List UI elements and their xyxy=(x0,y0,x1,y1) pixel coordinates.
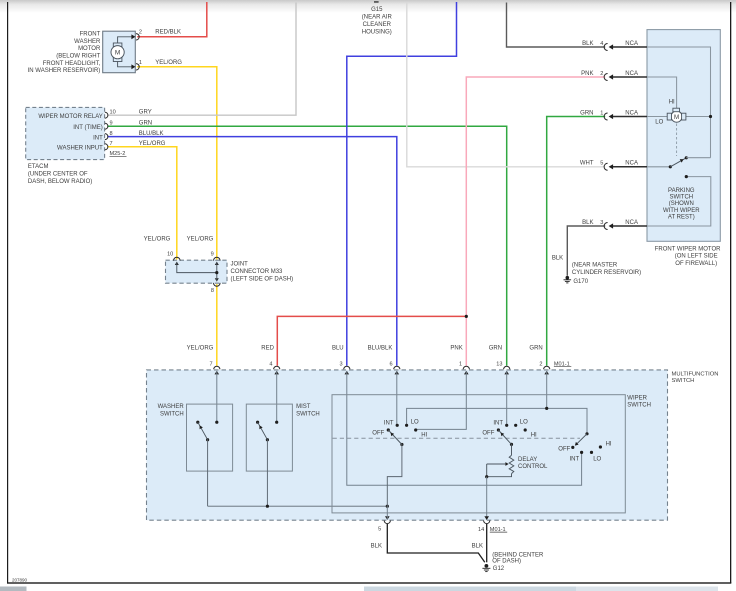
svg-text:CLEANER: CLEANER xyxy=(363,22,392,28)
svg-text:PARKING: PARKING xyxy=(668,188,695,194)
svg-text:GRY: GRY xyxy=(139,110,152,116)
svg-text:NCA: NCA xyxy=(625,220,638,226)
svg-text:INT (TIME): INT (TIME) xyxy=(73,125,103,131)
svg-text:CONNECTOR M33: CONNECTOR M33 xyxy=(231,269,284,275)
svg-text:13: 13 xyxy=(496,361,502,367)
svg-text:2: 2 xyxy=(139,30,142,36)
svg-text:1: 1 xyxy=(139,60,142,66)
svg-text:INT: INT xyxy=(570,457,580,463)
svg-text:NCA: NCA xyxy=(625,161,638,167)
svg-text:(BELOW RIGHT: (BELOW RIGHT xyxy=(56,53,100,59)
svg-text:RED/BLK: RED/BLK xyxy=(155,30,181,36)
svg-text:MIST: MIST xyxy=(296,404,311,410)
svg-text:5: 5 xyxy=(600,161,603,167)
svg-text:LO: LO xyxy=(520,420,528,426)
svg-text:OFF: OFF xyxy=(558,447,570,453)
svg-text:SWITCH: SWITCH xyxy=(160,411,184,417)
svg-text:MOTOR: MOTOR xyxy=(78,46,101,52)
svg-text:YEL/ORG: YEL/ORG xyxy=(139,141,166,147)
svg-text:BLK: BLK xyxy=(472,544,483,550)
svg-text:JOINT: JOINT xyxy=(231,261,249,267)
svg-text:BLU/BLK: BLU/BLK xyxy=(368,346,393,352)
svg-text:3: 3 xyxy=(600,220,603,226)
svg-text:1: 1 xyxy=(459,361,462,367)
svg-text:14: 14 xyxy=(478,527,484,533)
svg-text:OFF: OFF xyxy=(482,431,494,437)
svg-text:INT: INT xyxy=(384,420,394,426)
svg-text:HI: HI xyxy=(421,432,427,438)
svg-text:YEL/ORG: YEL/ORG xyxy=(155,60,182,66)
svg-text:BLK: BLK xyxy=(552,256,563,262)
svg-text:G170: G170 xyxy=(573,279,588,285)
svg-text:3: 3 xyxy=(339,361,342,367)
svg-text:OFF: OFF xyxy=(372,431,384,437)
svg-text:M: M xyxy=(115,50,120,57)
svg-text:2: 2 xyxy=(539,361,542,367)
svg-text:5: 5 xyxy=(378,526,381,532)
svg-text:(SHOWN: (SHOWN xyxy=(669,201,694,207)
svg-text:DELAY: DELAY xyxy=(518,457,537,463)
svg-text:DASH, BELOW RADIO): DASH, BELOW RADIO) xyxy=(28,179,92,185)
svg-text:HI: HI xyxy=(606,441,612,447)
svg-text:WASHER INPUT: WASHER INPUT xyxy=(57,146,103,152)
svg-text:M: M xyxy=(674,114,679,121)
svg-text:(NEAR MASTER: (NEAR MASTER xyxy=(572,263,618,269)
svg-text:BLK: BLK xyxy=(582,220,593,226)
svg-text:LO: LO xyxy=(655,120,663,126)
svg-text:FRONT HEADLIGHT,: FRONT HEADLIGHT, xyxy=(43,61,101,67)
svg-text:INT: INT xyxy=(493,420,503,426)
svg-text:RED: RED xyxy=(261,346,274,352)
svg-text:7: 7 xyxy=(209,361,212,367)
svg-text:PNK: PNK xyxy=(581,71,593,77)
svg-text:4: 4 xyxy=(600,41,603,47)
svg-text:HOUSING): HOUSING) xyxy=(362,29,392,35)
svg-text:10: 10 xyxy=(110,110,116,116)
svg-text:YEL/ORG: YEL/ORG xyxy=(187,346,214,352)
svg-text:(ON LEFT SIDE: (ON LEFT SIDE xyxy=(675,254,718,260)
svg-text:2: 2 xyxy=(600,71,603,77)
svg-text:G15: G15 xyxy=(371,7,383,13)
svg-text:AT REST): AT REST) xyxy=(668,215,695,221)
svg-text:8: 8 xyxy=(211,288,214,294)
svg-text:SWITCH: SWITCH xyxy=(672,378,695,384)
svg-text:G12: G12 xyxy=(493,566,505,572)
svg-text:NCA: NCA xyxy=(625,41,638,47)
svg-text:(UNDER CENTER OF: (UNDER CENTER OF xyxy=(28,171,88,177)
svg-text:WITH WIPER: WITH WIPER xyxy=(663,208,700,214)
svg-text:LO: LO xyxy=(411,420,419,426)
svg-text:9: 9 xyxy=(211,252,214,258)
svg-text:WASHER: WASHER xyxy=(158,404,185,410)
svg-text:6: 6 xyxy=(389,361,392,367)
svg-text:CONTROL: CONTROL xyxy=(518,464,548,470)
svg-text:BLU: BLU xyxy=(332,346,344,352)
svg-text:7: 7 xyxy=(110,141,113,147)
svg-text:(LEFT SIDE OF DASH): (LEFT SIDE OF DASH) xyxy=(231,276,294,282)
svg-text:9: 9 xyxy=(110,121,113,127)
svg-text:NCA: NCA xyxy=(625,71,638,77)
svg-text:GRN: GRN xyxy=(489,346,502,352)
svg-text:WASHER: WASHER xyxy=(74,39,101,45)
svg-text:YEL/ORG: YEL/ORG xyxy=(187,237,214,243)
svg-text:(NEAR AIR: (NEAR AIR xyxy=(362,15,393,21)
svg-text:8: 8 xyxy=(110,131,113,137)
svg-text:SWITCH: SWITCH xyxy=(296,411,320,417)
svg-text:HI: HI xyxy=(531,432,537,438)
svg-text:SWITCH: SWITCH xyxy=(669,195,693,201)
svg-text:INT: INT xyxy=(93,135,103,141)
svg-text:BLU/BLK: BLU/BLK xyxy=(139,131,164,137)
svg-text:WIPER MOTOR RELAY: WIPER MOTOR RELAY xyxy=(38,114,102,120)
svg-text:CYLINDER RESERVOIR): CYLINDER RESERVOIR) xyxy=(572,270,641,276)
svg-text:1: 1 xyxy=(600,110,603,116)
svg-text:OF FIREWALL): OF FIREWALL) xyxy=(675,261,717,267)
svg-text:GRN: GRN xyxy=(139,121,152,127)
svg-text:FRONT WIPER MOTOR: FRONT WIPER MOTOR xyxy=(655,246,721,252)
svg-text:WIPER: WIPER xyxy=(627,395,647,401)
svg-text:SWITCH: SWITCH xyxy=(627,403,651,409)
svg-text:MULTIFUNCTION: MULTIFUNCTION xyxy=(672,371,719,377)
svg-text:GRN: GRN xyxy=(529,346,542,352)
svg-text:BLK: BLK xyxy=(371,544,382,550)
svg-text:4: 4 xyxy=(269,361,272,367)
svg-text:LO: LO xyxy=(593,457,601,463)
svg-text:(BEHIND CENTER: (BEHIND CENTER xyxy=(492,552,544,558)
svg-text:ETACM: ETACM xyxy=(28,164,49,170)
svg-text:OF DASH): OF DASH) xyxy=(492,559,521,565)
svg-text:PNK: PNK xyxy=(450,346,462,352)
svg-text:10: 10 xyxy=(167,252,173,258)
svg-text:NCA: NCA xyxy=(625,110,638,116)
svg-text:FRONT: FRONT xyxy=(80,31,101,37)
svg-text:BLK: BLK xyxy=(582,41,593,47)
svg-text:HI: HI xyxy=(669,100,675,106)
svg-text:IN WASHER RESERVOIR): IN WASHER RESERVOIR) xyxy=(28,68,101,74)
svg-text:GRN: GRN xyxy=(580,110,593,116)
svg-text:YEL/ORG: YEL/ORG xyxy=(144,237,171,243)
svg-text:WHT: WHT xyxy=(580,161,594,167)
svg-text:207890: 207890 xyxy=(12,577,28,582)
